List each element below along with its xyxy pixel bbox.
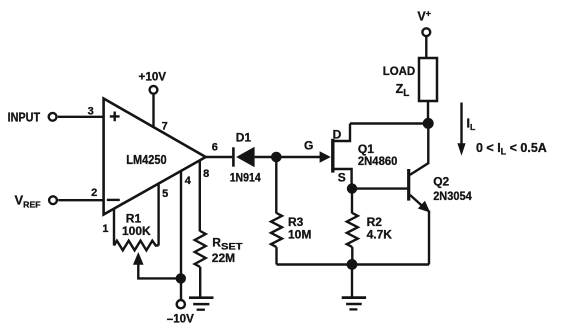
R1 wiper arrow: [133, 252, 144, 265]
svg-text:1: 1: [102, 223, 108, 235]
wire junction to ground: [351, 265, 353, 297]
current arrow IL: [460, 103, 462, 145]
pin 8 wire to RSET: [199, 161, 201, 232]
transistor Q1 2N4860 channel bar: [331, 139, 334, 173]
svg-text:+10V: +10V: [139, 69, 167, 83]
Q2 emitter arrowhead: [418, 201, 430, 213]
node A junction dot: [271, 152, 282, 163]
Q2 collector lead: [410, 126, 428, 175]
wire op-amp output pin 6 to diode: [206, 156, 233, 158]
gate arrowhead: [320, 151, 331, 163]
Q2 emitter lead: [410, 195, 424, 208]
svg-text:INPUT: INPUT: [8, 110, 41, 124]
wire source node to Q2 base: [357, 187, 408, 189]
node ground-rail junction dot: [347, 259, 358, 270]
Q1 source lead: [334, 169, 352, 185]
svg-text:4: 4: [185, 175, 192, 187]
svg-text:D: D: [333, 127, 342, 141]
svg-text:Q2: Q2: [433, 175, 449, 189]
wire RSET to ground: [199, 267, 201, 297]
load ZL box: [419, 58, 437, 101]
ground symbol under R2: [342, 296, 366, 299]
ground symbol under RSET: [189, 296, 214, 299]
svg-text:S: S: [338, 171, 346, 185]
svg-text:R1: R1: [126, 211, 142, 225]
wire R3 to ground rail: [275, 247, 277, 264]
node B junction dot: [423, 118, 434, 129]
svg-text:1N914: 1N914: [230, 171, 261, 185]
svg-text:2: 2: [91, 187, 97, 199]
node INPUT terminal: [49, 113, 57, 121]
wire node A down to R3: [275, 161, 277, 214]
svg-text:D1: D1: [236, 131, 252, 145]
svg-text:LOAD: LOAD: [383, 64, 416, 78]
node +10V terminal: [150, 86, 158, 94]
op-amp U1 LM4250 triangle: [104, 99, 206, 215]
wire V+ to load: [425, 36, 427, 58]
diode D1 cathode bar: [232, 147, 235, 166]
svg-text:2N4860: 2N4860: [358, 154, 398, 168]
node VREF terminal: [49, 196, 57, 204]
svg-text:6: 6: [212, 141, 218, 153]
wire vref to pin 2: [58, 199, 103, 201]
potentiometer R1 100K zigzag: [114, 241, 159, 251]
svg-text:3: 3: [88, 105, 94, 117]
resistor RSET 22M: [195, 231, 206, 267]
resistor R3 10M: [271, 213, 282, 247]
pin 4 wire to -10V: [180, 171, 182, 299]
Q1 drain lead: [334, 124, 350, 142]
wire +10V to pin 7: [152, 94, 154, 128]
wire drain to load node: [350, 122, 428, 124]
svg-text:2N3054: 2N3054: [433, 189, 472, 203]
node S junction dot: [347, 183, 357, 193]
svg-text:0 < IL < 0.5A: 0 < IL < 0.5A: [476, 141, 547, 157]
svg-text:7: 7: [162, 120, 168, 132]
wire wiper to -10V node: [138, 263, 181, 278]
op-amp minus input symbol: [107, 199, 120, 201]
diode D1 triangle: [236, 147, 254, 167]
pin 1 wire to R1: [113, 208, 115, 245]
svg-text:–10V: –10V: [167, 312, 194, 326]
wire source node down to R2: [351, 194, 353, 214]
node V+ terminal: [422, 28, 430, 36]
wire emitter down to rail: [428, 211, 430, 265]
wire R2 to ground rail: [351, 247, 353, 264]
wire bottom ground rail: [277, 263, 430, 265]
svg-text:22M: 22M: [212, 251, 235, 265]
svg-text:LM4250: LM4250: [126, 153, 166, 167]
svg-text:G: G: [304, 139, 313, 153]
svg-text:100K: 100K: [122, 224, 151, 238]
svg-text:5: 5: [162, 188, 168, 200]
svg-text:4.7K: 4.7K: [367, 227, 393, 241]
pin 5 wire to R1: [157, 184, 159, 246]
wire node A to gate arrow: [281, 156, 321, 158]
wire diode to node A: [255, 156, 272, 158]
node -10V terminal: [177, 300, 185, 308]
node -10V junction dot: [176, 273, 186, 283]
resistor R2 4.7K: [347, 213, 358, 247]
transistor Q2 2N3054 base bar: [407, 169, 410, 201]
wire load to node B: [427, 101, 429, 120]
op-amp plus input symbol: [110, 112, 120, 122]
svg-text:8: 8: [203, 168, 209, 180]
svg-text:10M: 10M: [288, 227, 311, 241]
wire input to pin 3: [58, 116, 104, 118]
